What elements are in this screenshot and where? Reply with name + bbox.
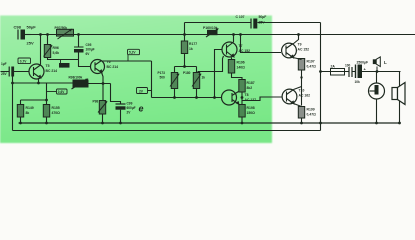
capacitor input 1µF [1,62,14,77]
svg-text:50µF: 50µF [27,25,37,30]
resistor R196 [228,58,245,80]
transistor T6 [91,60,119,74]
wire main rail y34 [31,34,415,36]
wire T6 emitter [102,73,121,105]
svg-text:500: 500 [160,76,166,80]
fuse [331,65,345,76]
svg-text:0,47Ω: 0,47Ω [307,65,317,69]
wire return rail y130 [13,130,321,132]
bus junction dots [19,122,22,125]
svg-text:2500µF: 2500µF [357,61,369,65]
node speaker junction [376,70,379,73]
capacitor C95 [74,35,95,67]
wire base line y97 [152,97,222,99]
wire corner vertical x320 [320,23,322,131]
wire T10 collector [294,87,302,90]
svg-text:P180: P180 [183,71,191,75]
wire T6 collector [101,61,152,98]
resistor R149 [17,105,33,124]
voltage box 2V [137,88,152,94]
voltage box 0,6V [57,89,68,94]
svg-text:50µF: 50µF [259,15,267,19]
svg-text:P98: P98 [93,100,99,104]
trimmer P173 [158,71,180,89]
svg-text:5,2V: 5,2V [129,51,136,55]
svg-text:1µF: 1µF [1,62,7,66]
svg-text:T9: T9 [298,43,302,47]
wire T7 collector [233,35,235,43]
speaker [392,72,405,124]
svg-text:T10: T10 [299,89,305,93]
svg-text:600µF: 600µF [127,106,136,110]
svg-text:R197: R197 [307,60,315,64]
wire bus ground y122.5 [19,122,401,124]
svg-text:2A: 2A [331,65,336,69]
svg-text:C98: C98 [14,25,22,30]
svg-text:5,6k: 5,6k [53,51,60,55]
wire trimmer loop top [175,67,197,98]
potentiometer P97 [55,26,74,39]
svg-text:100: 100 [345,64,351,68]
transistor T10 [282,89,310,104]
svg-text:R96: R96 [53,46,59,50]
svg-text:8k: 8k [26,111,30,115]
node T9 collector [297,33,300,36]
svg-text:0,6V: 0,6V [58,90,65,94]
svg-text:R177: R177 [189,42,197,46]
capacitor C110 [345,64,352,78]
svg-text:R155: R155 [52,106,60,110]
svg-text:1,6V: 1,6V [60,64,67,68]
wire input y71 [1,71,30,73]
node R177 junction [183,33,186,36]
wire corner vertical x184 [184,23,186,35]
node T5 collector junction [39,33,42,36]
wire top rail y22.5 [185,22,321,24]
svg-text:R196: R196 [237,61,245,65]
node coupling junction [77,33,80,36]
wire T7 emitter link [198,56,224,72]
transducer Tr [369,72,385,124]
svg-text:C99: C99 [127,102,133,106]
voltage box 1,6V [59,60,70,68]
node output junction [319,70,322,73]
svg-text:+: + [364,67,367,72]
svg-text:AC 162: AC 162 [299,93,311,97]
svg-text:P173: P173 [158,71,166,75]
svg-text:C 107: C 107 [236,15,245,19]
wire T7 base vertical [215,50,222,98]
svg-text:140Ω: 140Ω [237,66,246,70]
wire output line [321,71,401,73]
capacitor C98 [14,25,37,46]
trimmer R96 [44,35,79,60]
svg-text:470Ω: 470Ω [52,111,61,115]
transistor T9 [282,43,310,58]
trimmer R98 series [69,76,89,90]
trimmer P98 [93,100,108,124]
transistor T5 [29,64,57,79]
svg-text:P160/10k: P160/10k [203,26,218,30]
svg-text:BC 214: BC 214 [107,65,119,69]
svg-text:25V: 25V [1,72,8,76]
svg-text:8k2: 8k2 [247,86,253,90]
earphone L [373,57,387,72]
voltage box 5,2V [128,49,140,60]
transistor T7 [222,42,250,57]
svg-text:e: e [139,104,144,114]
svg-text:25V: 25V [27,41,34,46]
svg-text:150Ω: 150Ω [247,111,256,115]
svg-text:25V: 25V [259,21,266,25]
wire T5 emitter [13,78,111,105]
green highlight block [0,16,272,144]
wire T5 collector [40,35,42,65]
svg-text:T8: T8 [245,93,249,97]
resistor R187 [239,80,255,93]
svg-text:0,47Ω: 0,47Ω [307,113,317,117]
wire T10 emitter [294,104,302,107]
capacitor 2500uF [355,61,369,85]
wire T9 collector [293,35,299,45]
svg-text:10k: 10k [355,80,361,84]
svg-text:100µF: 100µF [86,48,95,52]
svg-text:R187: R187 [247,81,255,85]
capacitor C107 [236,15,267,29]
node R96 junction [46,33,49,36]
node emitter chain dot [300,76,302,78]
potentiometer P160 [203,26,219,37]
svg-text:L: L [384,60,387,65]
svg-text:R98/100k: R98/100k [69,76,83,80]
svg-text:AC 127: AC 127 [245,98,257,102]
svg-text:AC 152: AC 152 [298,47,310,51]
wire T10 base [242,97,282,101]
svg-text:1k: 1k [189,47,193,51]
svg-text:T5: T5 [46,64,50,68]
wire T9 base [241,35,282,53]
resistor R199 [298,107,316,124]
svg-text:C95: C95 [86,43,92,47]
svg-text:P97/50k: P97/50k [55,26,68,30]
svg-text:R199: R199 [307,108,315,112]
svg-text:R198: R198 [247,106,255,110]
node T9 base feed [239,33,242,36]
resistor R197 [298,59,316,106]
trimmer P180 [183,71,205,89]
capacitor C99 [116,102,136,124]
svg-text:1k: 1k [202,76,206,80]
svg-text:0,7V: 0,7V [20,60,27,64]
wire T9 emitter [293,58,302,60]
resistor R155 [43,105,60,124]
transistor T8 [222,90,257,105]
wire input ground vertical x12 [12,72,14,131]
voltage box 0,7V [18,58,31,64]
svg-text:R149: R149 [26,106,34,110]
resistor R177 [181,35,197,67]
resistor R198 [239,105,255,124]
svg-text:BC 214: BC 214 [46,69,58,73]
